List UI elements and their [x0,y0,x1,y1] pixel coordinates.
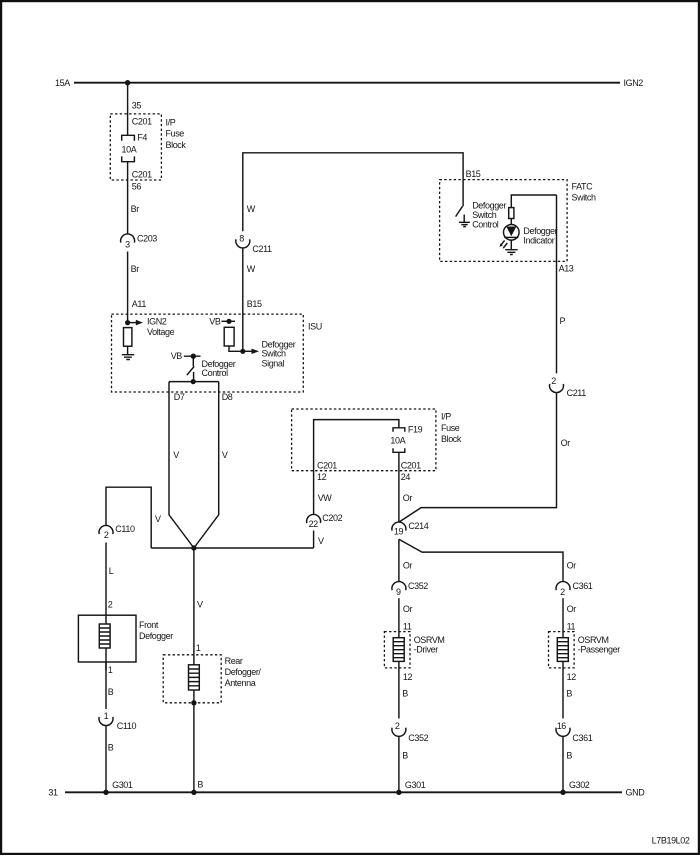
svg-text:Or: Or [403,561,413,571]
wire C352 to OSRVM driver [398,598,400,638]
heater element OSRVM passenger [557,638,568,662]
wire F4 to C203 [127,162,129,234]
svg-text:A11: A11 [132,299,147,309]
svg-text:Switch: Switch [572,193,597,203]
wire C203 to ISU pin A11 [127,252,129,323]
svg-text:IGN2: IGN2 [147,317,167,327]
svg-text:Fuse: Fuse [441,423,460,433]
LED defogger indicator [504,225,558,246]
svg-text:10A: 10A [122,144,137,154]
ISU box [112,314,304,392]
svg-text:Rear: Rear [225,656,243,666]
wire into element [105,615,107,624]
svg-text:L7B19L02: L7B19L02 [652,836,690,846]
wire C110 to front defogger [105,543,107,616]
FATC Switch box [440,180,567,262]
svg-text:Control: Control [472,219,499,229]
heater element rear defogger [189,665,200,690]
svg-text:FATC: FATC [572,182,594,192]
svg-text:B: B [197,780,203,790]
wire element to box bottom [193,690,195,703]
wire F19 to C214 [398,452,400,522]
svg-text:Or: Or [561,438,571,448]
front defogger box [78,615,136,662]
svg-text:VB: VB [171,351,183,361]
heater element OSRVM driver [393,638,404,662]
svg-text:ISU: ISU [308,321,322,331]
svg-text:Switch: Switch [262,349,287,359]
svg-text:31: 31 [48,788,58,798]
svg-text:Or: Or [567,604,577,614]
svg-text:F4: F4 [137,132,147,142]
svg-text:16: 16 [557,721,567,731]
svg-text:Or: Or [403,493,413,503]
svg-text:B: B [108,687,114,697]
svg-text:C203: C203 [137,234,157,244]
wire D8 to merge point [194,382,219,548]
svg-text:C201: C201 [132,116,152,126]
wire C110 to ground rail [105,726,107,793]
svg-text:VW: VW [318,493,333,503]
svg-text:C361: C361 [573,581,593,591]
connector C211 pin 8 [236,234,272,255]
ground (ISU input) [122,355,134,360]
junction dot rail (rear defogger) [191,790,196,795]
wire left branch to C110 [106,487,151,548]
wire ground rail [65,791,622,793]
svg-text:1: 1 [104,711,109,721]
svg-text:9: 9 [396,587,401,597]
switch defogger control [187,356,236,381]
svg-text:C110: C110 [117,721,137,731]
ground (FATC switch) [459,215,470,227]
svg-text:Defogger/: Defogger/ [225,667,262,677]
svg-text:Or: Or [567,561,577,571]
wire pull-up to B15 node [229,346,243,351]
svg-text:G301: G301 [112,780,133,790]
svg-text:Signal: Signal [262,359,285,369]
svg-text:B: B [566,750,572,760]
svg-text:Control: Control [202,368,229,378]
I/P fuse block box (F19) [292,409,436,471]
wire C202 to merge line [313,531,315,549]
node IGN2 Voltage arrow [125,317,175,338]
svg-text:P: P [560,316,566,326]
wire rear defogger to ground rail [193,703,195,793]
wire resistor to ground [127,346,129,354]
svg-text:OSRVM: OSRVM [578,635,609,645]
svg-text:W: W [247,264,256,274]
wire element to C352 pin 2 [398,661,400,718]
svg-text:B: B [566,689,572,699]
svg-text:2: 2 [395,721,400,731]
heater element front defogger [99,624,110,648]
junction dot G301 (driver) [396,790,401,795]
svg-text:2: 2 [551,376,556,386]
svg-text:V: V [222,450,228,460]
svg-text:1: 1 [108,665,113,675]
svg-text:C352: C352 [408,733,428,743]
svg-text:35: 35 [132,101,142,111]
connector C361 pin 2 [556,581,593,597]
wire C361 to ground rail [562,736,564,792]
svg-text:Br: Br [131,264,140,274]
svg-text:OSRVM: OSRVM [414,635,445,645]
wire element to box edge [105,648,107,670]
connector C202 pin 22 [307,513,343,529]
svg-text:2: 2 [108,600,113,610]
svg-text:3: 3 [125,240,130,250]
node VB defogger control [171,351,201,361]
rear defogger box [163,655,221,703]
svg-text:C352: C352 [408,581,428,591]
svg-text:11: 11 [567,622,576,632]
svg-text:Indicator: Indicator [523,236,554,246]
switch defogger switch control [456,201,507,230]
svg-text:C201: C201 [132,169,152,179]
svg-text:D7: D7 [174,392,185,402]
svg-text:V: V [197,600,203,610]
connector C211 pin 2 [550,376,587,398]
junction dot G302 [560,790,565,795]
svg-text:B15: B15 [466,169,481,179]
svg-text:Fuse: Fuse [166,129,185,139]
svg-text:D8: D8 [222,392,233,402]
connector C110 pin 2 [99,524,135,540]
svg-text:VB: VB [209,317,221,327]
wire merge point to rear defogger [193,548,195,665]
svg-text:B15: B15 [247,299,262,309]
wire W branch: ISU B15 up to FATC [242,248,244,351]
OSRVM driver box [384,632,410,668]
svg-text:C202: C202 [322,513,342,523]
svg-text:L: L [109,566,114,576]
connector C361 pin 16 [556,721,593,743]
svg-text:B: B [108,743,114,753]
I/P fuse block box (F4) [110,114,161,180]
svg-text:W: W [247,204,256,214]
arrow Defogger Switch Signal [243,339,296,368]
fuse F19 10A [390,425,422,453]
svg-text:G302: G302 [569,780,590,790]
wire F19 feed [314,420,399,515]
svg-text:C201: C201 [401,461,421,471]
svg-text:22: 22 [309,519,319,529]
svg-text:Voltage: Voltage [147,327,175,337]
svg-text:Block: Block [441,434,462,444]
wire D7 to merge point [169,382,194,548]
svg-text:Front: Front [139,620,159,630]
svg-text:C214: C214 [408,521,428,531]
junction dot on IGN2 rail [125,80,130,85]
junction dot rear defogger ground [191,700,196,705]
junction dot B15 node [240,349,245,354]
svg-text:11: 11 [403,622,412,632]
wire D7/D8 output bar [169,381,219,383]
svg-text:Defogger: Defogger [139,631,173,641]
connector C110 pin 1 [99,711,136,731]
svg-text:12: 12 [403,672,413,682]
wire element to C361 pin 16 [562,661,564,718]
svg-text:2: 2 [104,530,109,540]
wire from IGN2 rail to fuse F4 [127,83,129,136]
wire resistor to LED [510,219,512,225]
connector C203 pin 3 [121,234,158,250]
svg-text:B: B [402,689,408,699]
svg-text:V: V [173,450,179,460]
wire C211 down to C214 corner [399,393,557,523]
svg-text:-Passenger: -Passenger [578,645,620,655]
wire A13 branch [556,195,558,373]
svg-text:C201: C201 [317,461,337,471]
svg-text:Br: Br [131,204,140,214]
svg-text:12: 12 [317,472,327,482]
OSRVM passenger box [549,632,575,668]
svg-text:GND: GND [626,788,646,798]
svg-text:Antenna: Antenna [225,678,256,688]
svg-text:C110: C110 [115,524,135,534]
resistor LED [509,208,514,219]
wire C352 to ground rail [398,736,400,792]
svg-text:IGN2: IGN2 [624,78,644,88]
svg-text:V: V [318,536,324,546]
svg-text:Block: Block [166,140,187,150]
svg-text:1: 1 [196,643,201,653]
svg-text:G301: G301 [405,780,426,790]
resistor VB pull-up [224,327,234,346]
svg-text:24: 24 [401,472,411,482]
wire LED branch top [511,195,556,208]
wire to C110 pin 1 [105,662,107,709]
svg-text:8: 8 [239,234,244,244]
svg-text:Or: Or [403,604,413,614]
connector C214 pin 19 [392,521,429,537]
svg-text:15A: 15A [55,78,70,88]
svg-text:I/P: I/P [166,118,176,128]
svg-text:10A: 10A [390,436,405,446]
junction dot G301 (front defogger) [103,790,108,795]
wire C214 to OSRVM driver and passenger split [399,539,563,581]
svg-text:B: B [402,750,408,760]
svg-text:19: 19 [394,527,404,537]
node VB pull-up [209,317,235,327]
svg-text:A13: A13 [559,264,574,274]
wire merge line [151,547,313,549]
wire top rail IGN2 [74,82,620,84]
svg-text:C211: C211 [567,388,587,398]
svg-text:56: 56 [132,181,142,191]
LED light arrows [500,240,508,248]
svg-text:V: V [155,514,161,524]
junction dot switch output [191,379,196,384]
svg-text:12: 12 [567,672,577,682]
svg-text:C211: C211 [252,244,272,254]
svg-text:F19: F19 [408,425,423,435]
fuse F4 10A [122,132,148,161]
svg-text:-Driver: -Driver [414,645,439,655]
connector C352 pin 2 [392,721,429,743]
connector C352 pin 9 [392,581,428,597]
svg-text:2: 2 [560,587,565,597]
junction dot merge point [191,545,196,550]
svg-text:C361: C361 [572,733,592,743]
wire LED to ground [510,240,512,250]
ground (LED) [505,250,517,255]
svg-text:I/P: I/P [441,412,451,422]
resistor ISU input [124,328,132,347]
wire C361 to OSRVM passenger [562,598,564,638]
